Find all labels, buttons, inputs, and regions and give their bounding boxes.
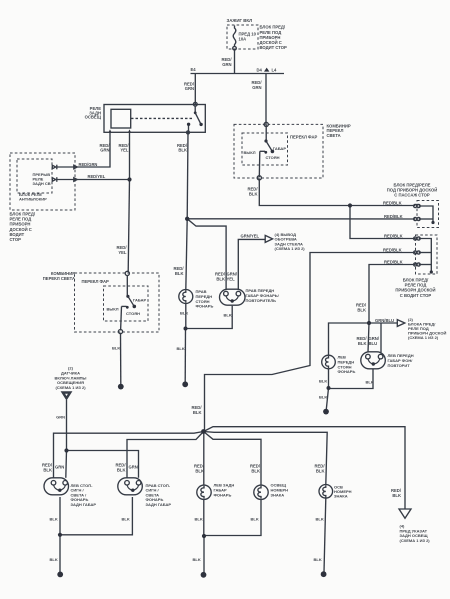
svg-text:RED/BLK: RED/BLK [384,214,403,219]
svg-text:ПЕРЕКЛ ФАР: ПЕРЕКЛ ФАР [82,279,110,284]
svg-text:D4: D4 [257,67,263,72]
svg-text:BLK: BLK [177,346,185,351]
svg-text:BLK: BLK [249,192,258,197]
svg-text:GRN: GRN [100,148,109,153]
svg-text:ЗАДН СВ: ЗАДН СВ [33,181,51,186]
svg-text:10А: 10А [239,37,247,42]
svg-text:BLK: BLK [357,308,366,313]
svg-text:ГАБАР: ГАБАР [273,146,287,151]
svg-text:BLK: BLK [122,517,130,522]
svg-text:GRN/YEL: GRN/YEL [241,233,260,238]
svg-text:BLU: BLU [369,341,378,346]
svg-text:(СХЕМА 1 ИЗ 2): (СХЕМА 1 ИЗ 2) [400,538,431,543]
svg-text:ГАБАР: ГАБАР [133,298,147,303]
svg-text:ВЫКЛ: ВЫКЛ [107,307,119,312]
svg-text:BLK: BLK [319,379,327,384]
svg-text:GRN: GRN [222,62,231,67]
svg-text:ПОВТОРИТЕЛЬ: ПОВТОРИТЕЛЬ [246,298,277,303]
svg-text:RED/BLK: RED/BLK [384,234,403,239]
svg-text:BLK: BLK [251,469,260,474]
svg-text:BLK: BLK [224,313,232,318]
svg-text:ВЫКЛ: ВЫКЛ [244,150,256,155]
svg-text:ВОДИТ СТОР: ВОДИТ СТОР [260,45,287,50]
svg-text:BLK: BLK [195,469,204,474]
svg-text:ЗАЖИГ ВКЛ: ЗАЖИГ ВКЛ [227,18,253,23]
svg-text:BLK: BLK [316,469,325,474]
svg-text:YEL: YEL [120,148,129,153]
svg-text:СТОЯН: СТОЯН [126,311,140,316]
svg-text:ФОНАРЬ: ФОНАРЬ [338,369,356,374]
svg-text:GRN: GRN [55,465,64,470]
svg-text:GRN/BLU: GRN/BLU [375,318,394,323]
svg-text:BLK: BLK [319,395,327,400]
svg-text:СТОЯН: СТОЯН [266,155,280,160]
svg-text:BLK: BLK [195,517,203,522]
svg-text:BLK: BLK [251,517,259,522]
svg-text:GRN: GRN [129,465,138,470]
svg-text:(СХЕМА 1 ИЗ 2): (СХЕМА 1 ИЗ 2) [275,246,306,251]
svg-text:BLK: BLK [117,467,126,472]
svg-text:ЗАДН ГАБАР: ЗАДН ГАБАР [71,502,97,507]
svg-text:RED/BLK: RED/BLK [383,248,402,253]
svg-text:С ПАССАЖ СТОР: С ПАССАЖ СТОР [394,193,430,198]
svg-text:BLK: BLK [178,148,187,153]
svg-text:YEL: YEL [227,277,236,282]
svg-text:BLK: BLK [50,557,58,562]
svg-text:ФОНАРЬ: ФОНАРЬ [196,304,214,309]
svg-text:ОСВЕЩ: ОСВЕЩ [85,115,102,120]
svg-text:E4: E4 [191,67,197,72]
svg-text:СТОР: СТОР [10,237,22,242]
svg-text:RED/BLK: RED/BLK [384,260,403,265]
svg-text:GRN: GRN [56,415,65,420]
svg-text:GRN: GRN [185,86,194,91]
svg-text:YEL: YEL [118,250,127,255]
svg-text:BLK: BLK [366,380,374,385]
svg-text:BLK: BLK [175,271,184,276]
svg-text:ПЕРЕКЛ ФАР: ПЕРЕКЛ ФАР [290,135,318,140]
svg-text:GRN: GRN [252,85,261,90]
svg-text:BLK: BLK [50,517,58,522]
svg-text:С ВОДИТ СТОР: С ВОДИТ СТОР [400,293,432,298]
svg-text:ПОВТОРИТ: ПОВТОРИТ [388,363,411,368]
svg-text:BLK: BLK [216,277,225,282]
svg-text:ЗНАКА: ЗНАКА [271,492,285,497]
svg-text:ЗАДН ГАБАР: ЗАДН ГАБАР [146,502,172,507]
svg-text:BLK: BLK [180,311,188,316]
svg-text:BLK: BLK [358,341,367,346]
svg-text:BLK: BLK [193,557,201,562]
svg-text:L4: L4 [272,67,278,72]
svg-text:BLK: BLK [112,346,120,351]
svg-text:RED/YEL: RED/YEL [88,174,106,179]
svg-text:АНТИБЛОКИР: АНТИБЛОКИР [19,197,47,202]
svg-text:(СХЕМА 1 ИЗ 2): (СХЕМА 1 ИЗ 2) [408,335,439,340]
svg-text:ФОНАРЬ: ФОНАРЬ [214,492,232,497]
svg-text:BLK: BLK [392,493,401,498]
svg-text:ПЕРЕКЛ СВЕТА: ПЕРЕКЛ СВЕТА [43,276,75,281]
svg-text:СВЕТА: СВЕТА [327,133,341,138]
svg-text:BLK: BLK [316,517,324,522]
svg-text:(СХЕМА 1 ИЗ 2): (СХЕМА 1 ИЗ 2) [55,385,86,390]
svg-text:RED/BLK: RED/BLK [383,201,402,206]
svg-text:ЗНАКА: ЗНАКА [334,494,348,499]
svg-text:BLK: BLK [193,410,202,415]
svg-text:BLK: BLK [314,557,322,562]
svg-text:RED/GRN: RED/GRN [79,162,98,167]
svg-text:BLK: BLK [43,467,52,472]
